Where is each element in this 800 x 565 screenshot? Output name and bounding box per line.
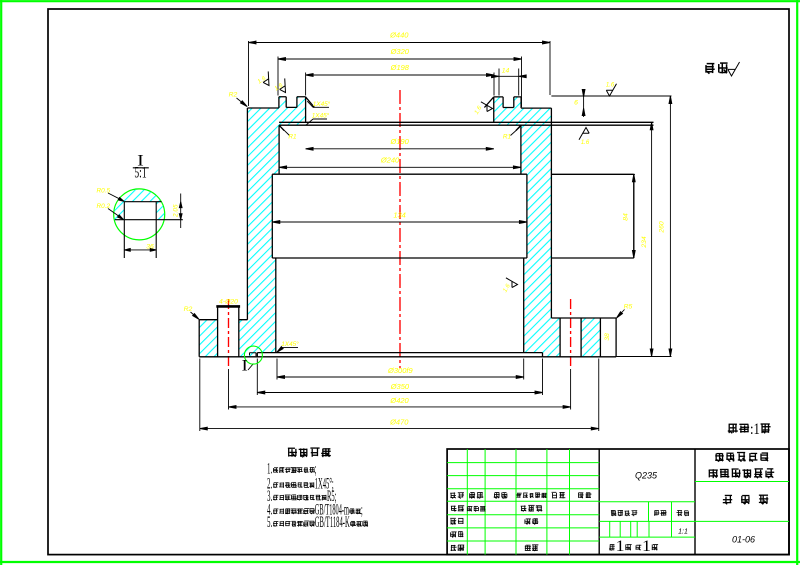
tb school name line1 bbox=[715, 453, 724, 461]
detail marker circle bbox=[244, 346, 262, 364]
leader R2 left flange bbox=[191, 312, 199, 319]
tb 图样标记 重量 比例 bbox=[611, 510, 617, 516]
svg-text:01-06: 01-06 bbox=[732, 535, 755, 545]
leader R1 left bore2 bbox=[281, 127, 290, 135]
tb row 校对 bbox=[450, 518, 456, 524]
svg-text:14: 14 bbox=[502, 67, 510, 74]
svg-text:6: 6 bbox=[574, 100, 578, 107]
svg-text:GB/T1184-K: GB/T1184-K bbox=[315, 514, 350, 531]
svg-text:R1: R1 bbox=[503, 133, 512, 140]
svg-text:2.05: 2.05 bbox=[172, 204, 179, 218]
vdim 6 top right bbox=[583, 89, 585, 117]
tb school name line2 bbox=[709, 469, 718, 478]
svg-text:1X45°: 1X45° bbox=[312, 112, 330, 120]
svg-text:4-Ø20: 4-Ø20 bbox=[219, 299, 238, 306]
finish symbol S6 bbox=[506, 278, 518, 288]
dim Ø470 flange bbox=[200, 428, 599, 430]
svg-text:134: 134 bbox=[393, 211, 406, 220]
dim 134 bore bbox=[272, 221, 527, 223]
title block black dividers bbox=[599, 449, 695, 555]
svg-text:Ø420: Ø420 bbox=[389, 396, 409, 405]
centerline left bolt hole bbox=[228, 299, 230, 369]
tb row 审核 bbox=[451, 532, 457, 538]
dim 14 top right bbox=[499, 75, 519, 77]
finish symbol S5 bbox=[579, 128, 589, 140]
svg-text:5.: 5. bbox=[267, 514, 272, 531]
dimension extension lines bbox=[200, 41, 672, 431]
hatch left wall bbox=[247, 97, 305, 320]
detail dim 36 bbox=[108, 193, 182, 251]
detail marker groove bbox=[250, 353, 257, 357]
svg-text:Ø240: Ø240 bbox=[380, 156, 400, 165]
leader chamfer bottom-left bbox=[277, 348, 298, 353]
svg-text:Ø320: Ø320 bbox=[390, 47, 410, 56]
svg-text:Ø300f9: Ø300f9 bbox=[387, 366, 413, 375]
svg-text:1:1: 1:1 bbox=[678, 529, 688, 536]
tb row 设计 bbox=[451, 506, 457, 512]
dim Ø198 top bbox=[306, 74, 494, 76]
quantity note bbox=[728, 424, 738, 433]
finish symbol S3 bbox=[481, 102, 493, 112]
svg-text:260: 260 bbox=[659, 221, 666, 234]
svg-text:1: 1 bbox=[642, 538, 651, 555]
svg-text:5:1: 5:1 bbox=[134, 165, 146, 182]
dim Ø320 top bbox=[278, 58, 522, 60]
hatch left flange inner bbox=[239, 320, 276, 357]
leader chamfer 1x45 top bbox=[307, 101, 329, 107]
vdim 260 right bbox=[669, 96, 671, 357]
dim Ø190 bore bbox=[306, 148, 494, 150]
hatch right flange near bbox=[551, 318, 560, 357]
hatch left flange outer bbox=[199, 320, 217, 357]
centerline right bolt hole bbox=[570, 299, 572, 369]
svg-text:1.6: 1.6 bbox=[606, 83, 615, 89]
finish symbol S1 bbox=[260, 71, 275, 87]
svg-text:I: I bbox=[242, 358, 248, 375]
bearing seat part outline bbox=[199, 97, 653, 357]
bolt hole spot-face cap bbox=[216, 305, 240, 308]
centerline main axis bbox=[399, 90, 401, 368]
svg-text:1.6: 1.6 bbox=[581, 140, 590, 146]
svg-text:1X45°: 1X45° bbox=[281, 340, 299, 348]
dim Ø420 bolt circle bbox=[229, 406, 571, 408]
detail dim 2.05 bbox=[180, 194, 182, 229]
vdim 84 boss bbox=[633, 174, 635, 258]
tb sheet count bbox=[609, 544, 615, 550]
detail groove outline bbox=[115, 202, 183, 258]
leader R2 top-left bbox=[237, 98, 247, 106]
tech requirements title bbox=[288, 448, 297, 457]
svg-text::1: :1 bbox=[750, 421, 760, 438]
tb header row bbox=[450, 492, 456, 498]
svg-text:R0.2: R0.2 bbox=[97, 203, 111, 210]
title block green grid bbox=[447, 449, 789, 555]
tb part name 轴承座 bbox=[723, 495, 732, 504]
qiyu remainder roughness bbox=[706, 64, 715, 74]
detail circle green bbox=[114, 189, 165, 240]
svg-text:R2: R2 bbox=[229, 92, 238, 99]
leader detail I bbox=[248, 364, 254, 371]
svg-text:1X45°: 1X45° bbox=[313, 100, 331, 108]
title block frame bbox=[447, 449, 789, 555]
svg-text:;: ; bbox=[361, 502, 363, 519]
finish symbol S4 bbox=[606, 84, 616, 96]
dim Ø240 bore bbox=[279, 166, 521, 168]
vdim 234 right bbox=[651, 122, 653, 356]
svg-text:Ø198: Ø198 bbox=[390, 63, 410, 72]
svg-text:R5: R5 bbox=[624, 304, 633, 311]
svg-text:84: 84 bbox=[623, 213, 630, 221]
svg-text:1: 1 bbox=[616, 538, 625, 555]
svg-text:R2: R2 bbox=[184, 306, 193, 313]
svg-text:Ø440: Ø440 bbox=[389, 31, 409, 40]
dim Ø350 bottom bbox=[257, 392, 542, 394]
svg-text:Ø350: Ø350 bbox=[390, 382, 410, 391]
svg-text:36: 36 bbox=[146, 244, 154, 251]
svg-text:Ø190: Ø190 bbox=[390, 137, 410, 146]
svg-text:Q235: Q235 bbox=[635, 471, 658, 481]
svg-text:R0.5: R0.5 bbox=[97, 187, 111, 194]
tb row 工艺 bbox=[451, 545, 457, 551]
dim Ø300 bottom bbox=[277, 376, 524, 378]
leader chamfer 1x45 lower bbox=[307, 119, 328, 125]
leader R5 right flange bbox=[617, 310, 625, 318]
finish symbol S2 bbox=[276, 78, 291, 94]
detail leaders bbox=[108, 193, 124, 201]
svg-text:234: 234 bbox=[641, 236, 648, 249]
leader R1 right bore2 bbox=[511, 127, 520, 135]
svg-text:Ø470: Ø470 bbox=[389, 418, 409, 427]
svg-text:R1: R1 bbox=[288, 133, 297, 140]
hatch right wall bbox=[494, 97, 552, 357]
hatch right flange far bbox=[581, 318, 600, 357]
dim Ø440 top bbox=[249, 42, 551, 44]
svg-text:38: 38 bbox=[604, 333, 611, 341]
